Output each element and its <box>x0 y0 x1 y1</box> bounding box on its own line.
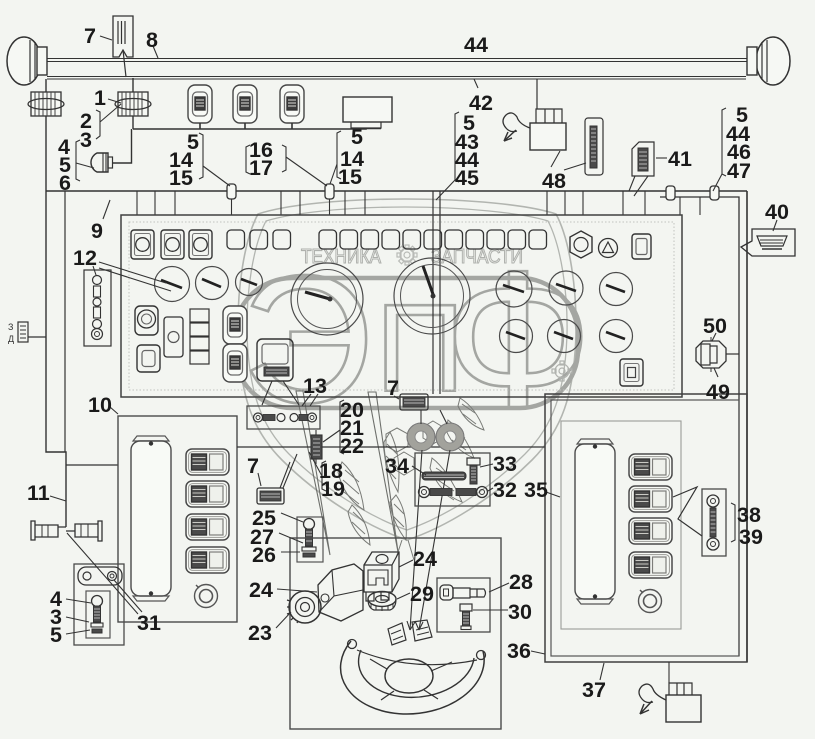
bracket box 32-33-34 <box>415 453 490 506</box>
svg-text:17: 17 <box>249 156 273 180</box>
harness drop wires <box>137 191 700 215</box>
harness connector mid right <box>666 186 675 200</box>
gauge small L1 <box>155 267 190 302</box>
relay 48 <box>503 109 566 150</box>
leader 23 <box>276 612 291 628</box>
svg-text:49: 49 <box>706 380 730 404</box>
wire arrowheads <box>407 621 423 630</box>
svg-text:40: 40 <box>765 200 789 224</box>
steering wheel <box>341 620 486 714</box>
leader 4-3-5 <box>66 599 91 634</box>
svg-text:45: 45 <box>455 166 479 190</box>
gauge small R2 <box>549 271 583 305</box>
bolt 25-27-26 <box>302 519 316 558</box>
wire drop to connector 7 center <box>433 191 440 394</box>
connector pair 11 <box>31 521 102 541</box>
svg-text:10: 10 <box>88 393 112 417</box>
svg-text:22: 22 <box>340 434 364 458</box>
svg-text:Д: Д <box>8 334 14 344</box>
bracket 16-17 <box>246 145 327 186</box>
bracket 2-3 <box>96 104 121 139</box>
svg-text:34: 34 <box>385 454 409 478</box>
svg-text:35: 35 <box>524 478 548 502</box>
thermometer bracket 48 <box>585 118 603 175</box>
svg-text:31: 31 <box>137 611 161 635</box>
svg-text:7: 7 <box>84 24 96 48</box>
leader 29 <box>397 593 410 599</box>
svg-text:7: 7 <box>387 376 399 400</box>
leader 10 <box>110 407 118 414</box>
svg-text:З: З <box>8 322 13 332</box>
wires rings to steering hub <box>410 450 450 630</box>
leader 1 <box>108 99 121 103</box>
wire branch to panel 10 <box>66 464 118 466</box>
speaker 40 <box>741 229 795 256</box>
link rod 32 <box>419 487 488 498</box>
leader 41 <box>656 157 667 159</box>
switch square lower <box>137 345 160 372</box>
gauge small R1 <box>496 271 532 307</box>
svg-text:39: 39 <box>739 525 763 549</box>
key box 28-30 <box>437 578 490 632</box>
svg-text:8: 8 <box>146 28 158 52</box>
indicator lamp row <box>227 230 547 249</box>
harness connector 5-44-46-47 <box>710 186 719 200</box>
svg-text:15: 15 <box>338 165 362 189</box>
connector 20-21-22 <box>311 430 322 464</box>
bracket plate 31 <box>78 567 122 585</box>
link 13 a <box>254 413 286 422</box>
ring connector a <box>407 410 435 451</box>
svg-text:50: 50 <box>703 314 727 338</box>
svg-text:41: 41 <box>668 147 692 171</box>
square indicator bottom right <box>620 359 643 386</box>
lever slider <box>164 317 183 357</box>
svg-text:19: 19 <box>321 477 345 501</box>
svg-text:33: 33 <box>493 452 517 476</box>
rocker switch top 3 <box>280 85 304 123</box>
leader 31 <box>67 533 142 614</box>
wire junction to fuse block 1 <box>132 78 134 92</box>
svg-text:44: 44 <box>464 33 488 57</box>
watermark layer <box>234 199 593 560</box>
rocker switch top 2 <box>233 85 257 123</box>
wire fuse1 to lamp and bus <box>113 116 134 163</box>
gauge small R5 <box>548 320 581 353</box>
svg-text:23: 23 <box>248 621 272 645</box>
fuse block 1 <box>115 92 151 116</box>
svg-text:6: 6 <box>59 171 71 195</box>
bolt 33 <box>467 458 480 484</box>
leader 36 <box>531 651 545 654</box>
watermark shield outer outline <box>238 199 576 540</box>
wire panel10 to panel36 <box>237 446 545 448</box>
panel 10 box <box>118 416 237 622</box>
svg-text:48: 48 <box>542 169 566 193</box>
panel 36 inner box <box>551 400 739 656</box>
rocker small V1 <box>223 306 247 344</box>
panel 10 tall unit <box>131 436 171 601</box>
gauge small R3 <box>600 273 633 306</box>
leader 9 <box>103 200 110 219</box>
svg-text:26: 26 <box>252 543 276 567</box>
leader 12 <box>93 262 171 291</box>
leader 49 <box>714 368 718 377</box>
svg-text:24: 24 <box>413 547 437 571</box>
leader 7 top <box>100 36 112 40</box>
headlamp left <box>7 37 47 85</box>
link plate 13 box <box>247 406 320 429</box>
hex indicator <box>570 231 592 258</box>
leader 32 <box>488 488 493 491</box>
link 38-39 <box>707 495 719 550</box>
sensor small left <box>8 322 46 344</box>
svg-text:1: 1 <box>94 86 106 110</box>
headlamp right <box>747 37 790 85</box>
watermark wheat leaves <box>338 398 484 560</box>
leader 40 <box>773 220 777 231</box>
gauge big B <box>394 258 470 334</box>
gauge small L2 <box>196 267 229 300</box>
link 13 b <box>290 413 317 422</box>
harness connector 5-14-15 a <box>227 184 236 215</box>
connector 7 center <box>400 394 428 410</box>
wire from fuse block 2 down <box>45 116 47 191</box>
panel 36 outer box <box>545 394 747 662</box>
knob 23 <box>287 591 321 623</box>
gauge big A <box>291 263 363 335</box>
panel 10 round connector <box>195 585 218 608</box>
leader 24 left <box>277 589 317 592</box>
panel 35 inner panel <box>561 421 681 629</box>
resistor chain 12 <box>84 270 111 346</box>
panel 10 rocker 1 <box>186 449 229 475</box>
nut 29 <box>368 592 396 612</box>
svg-text:3: 3 <box>80 128 92 152</box>
bottom right connector <box>639 662 701 722</box>
watermark wheat spike left <box>296 391 330 555</box>
svg-text:38: 38 <box>737 503 761 527</box>
wire stub headlamp junction <box>45 79 47 92</box>
svg-text:47: 47 <box>727 159 751 183</box>
zigzag leader to 38 <box>673 487 702 536</box>
connector 7 top <box>113 16 133 77</box>
watermark wheat spike right <box>368 392 398 552</box>
leader 7 mid <box>394 396 399 399</box>
bolt 4-3-5 box <box>86 591 110 638</box>
wire 42 second <box>47 77 746 80</box>
gauge small R6 <box>600 320 633 353</box>
bracket 20-21-22 <box>323 400 344 454</box>
bar 34 <box>422 472 466 480</box>
box unit top right <box>343 97 392 128</box>
watermark shield inner outline <box>247 207 567 530</box>
panel 35 rocker 2 <box>629 486 672 512</box>
svg-text:37: 37 <box>582 678 606 702</box>
svg-text:11: 11 <box>27 481 50 505</box>
svg-text:12: 12 <box>73 246 97 270</box>
svg-text:30: 30 <box>508 600 532 624</box>
lamp 4-5-6 <box>91 153 113 172</box>
leader 24 right <box>399 560 413 567</box>
bracket 5-14-15 b <box>330 131 341 184</box>
bolt 30 <box>460 604 472 630</box>
watermark gear icon <box>397 245 417 265</box>
gauge small R4 <box>500 320 533 353</box>
panel 10 rocker 4 <box>186 547 229 573</box>
leader 8 <box>153 46 158 58</box>
svg-text:5: 5 <box>351 125 363 149</box>
bracket 5-14-15 a <box>199 133 230 186</box>
rocker small V2 <box>223 344 247 382</box>
bolt box 25-27-26 <box>297 517 323 562</box>
leader 25 <box>281 513 303 522</box>
svg-text:5: 5 <box>50 623 62 647</box>
leader 7 left <box>258 473 261 486</box>
warning circle indicator <box>599 239 618 258</box>
harness inner line right <box>660 197 739 656</box>
relay 48 wire drop <box>536 79 538 109</box>
bolt 4-3-5 <box>91 596 103 634</box>
panel 35 round connector <box>639 590 662 613</box>
block stack 4 <box>190 309 209 364</box>
indicator square 2 <box>161 230 184 259</box>
key 28 <box>440 585 486 600</box>
panel 10 rocker 2 <box>186 481 229 507</box>
panel 35 rocker 1 <box>629 454 672 480</box>
indicator square 1 <box>131 230 154 259</box>
fuse block 2 <box>28 92 64 116</box>
leader 30 <box>473 609 508 611</box>
watermark small gear bottom <box>552 361 572 381</box>
ignition switch <box>135 306 158 335</box>
svg-text:24: 24 <box>249 578 273 602</box>
instrument panel outer <box>121 215 682 397</box>
svg-text:7: 7 <box>247 454 259 478</box>
bracket 4-5-6 <box>76 140 94 181</box>
svg-text:36: 36 <box>507 639 531 663</box>
leader 42 <box>474 79 478 88</box>
rocker switch top 1 <box>188 85 212 123</box>
leader 33 <box>480 464 493 467</box>
panel 35 rocker 3 <box>629 518 672 544</box>
leader 27 <box>279 533 303 543</box>
wire left vertical outer <box>46 191 66 527</box>
leader 11 <box>50 496 66 501</box>
wire left vertical inner <box>64 191 66 452</box>
main harness wire <box>46 190 747 192</box>
display unit 13 source <box>257 339 293 381</box>
switch body 24 upper <box>364 552 399 601</box>
leader 50 <box>712 333 716 341</box>
bracket 5-43-44-45 <box>436 112 459 200</box>
harness right corner down <box>746 191 748 662</box>
svg-text:9: 9 <box>91 219 103 243</box>
leader 13 <box>262 381 318 406</box>
watermark EPF logo border <box>234 278 578 408</box>
harness connector 16-17 <box>325 184 334 215</box>
panel 35 tall unit <box>575 439 615 604</box>
wire 44 top <box>47 59 756 62</box>
instrument panel inner bezel <box>129 222 674 390</box>
ring connector b <box>436 410 464 451</box>
panel 35 rocker 4 <box>629 552 672 578</box>
bracket plate 31 box <box>74 564 124 645</box>
svg-text:13: 13 <box>303 374 327 398</box>
leader 28 <box>489 583 509 592</box>
switch body 24 left <box>318 564 363 621</box>
bracket 18-19 <box>309 452 326 491</box>
svg-text:32: 32 <box>493 478 517 502</box>
connector 7 left <box>257 454 297 504</box>
leader 48 <box>551 151 586 170</box>
leader 26 <box>281 551 300 553</box>
steering column box <box>290 538 501 729</box>
bracket 5-44-46-47 <box>713 108 726 191</box>
indicator square 3 <box>189 230 212 259</box>
link 38-39 box <box>702 489 726 556</box>
grommet 49-50 <box>696 337 739 372</box>
leader 37 <box>600 663 604 680</box>
svg-text:28: 28 <box>509 570 533 594</box>
leader 35 <box>546 492 560 497</box>
panel 10 rocker 3 <box>186 514 229 540</box>
svg-text:29: 29 <box>410 582 434 606</box>
leader 34 <box>412 466 426 475</box>
square indicator right <box>632 234 651 259</box>
bracket 38-39 <box>731 503 735 542</box>
connector 41 <box>629 142 654 196</box>
gauge small L3 <box>236 269 263 296</box>
bus wire under switches <box>133 123 381 129</box>
svg-text:15: 15 <box>169 166 193 190</box>
